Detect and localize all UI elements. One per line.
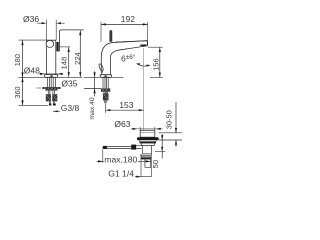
dim 153 extension left	[105, 104, 107, 113]
lever stick	[110, 31, 112, 42]
locknut ring (dark)	[140, 141, 157, 143]
svg-text:Ø48: Ø48	[24, 66, 40, 76]
svg-text:192: 192	[121, 14, 135, 24]
base plate	[45, 75, 58, 78]
cup rim line	[140, 132, 155, 134]
svg-text:Ø63: Ø63	[114, 119, 130, 129]
extension line 192 left	[100, 22, 102, 42]
dim line max.180	[96, 160, 150, 162]
thread section	[141, 154, 151, 160]
spout top edge detail	[116, 41, 148, 43]
lever hook on column	[98, 63, 104, 71]
thread dark band	[141, 157, 151, 159]
shank below deck	[47, 77, 55, 87]
deck bottom line	[84, 87, 101, 89]
leader G1 1/4	[135, 176, 152, 178]
flange (dark bar)	[137, 137, 159, 140]
shank (side)	[103, 77, 108, 88]
centerline aerator to drain	[143, 48, 145, 130]
lower white band	[141, 143, 154, 145]
lever ball	[46, 40, 54, 47]
extension line thread left	[140, 154, 142, 177]
dim line 153	[106, 109, 144, 111]
leader G3/8	[53, 110, 60, 112]
svg-text:156: 156	[152, 58, 161, 71]
dim line Ø63	[131, 128, 163, 130]
deck at drain top line	[159, 132, 182, 134]
arrow 360 bottom	[21, 100, 23, 105]
hose connector right (dark)	[52, 94, 57, 101]
rod tip (dark)	[103, 146, 107, 149]
angle arc with arrows	[137, 64, 151, 67]
svg-text:360: 360	[13, 86, 22, 98]
extension line right Ø36	[55, 20, 57, 40]
spout outline	[101, 41, 147, 77]
svg-text:180: 180	[13, 54, 22, 66]
base plate mark	[50, 76, 53, 77]
dim 156 vertical	[159, 47, 161, 77]
dim 224 vertical	[79, 30, 81, 77]
plug cup	[140, 130, 155, 137]
spout tip face	[146, 41, 148, 46]
extension line 156 top	[148, 46, 163, 48]
dim max.180 extension left	[102, 149, 104, 162]
svg-text:max.40: max.40	[89, 97, 96, 120]
deck line (side view)	[84, 76, 123, 78]
spout bottom step	[56, 50, 59, 52]
extension line 156 bottom	[150, 76, 163, 78]
aerator (dark)	[140, 44, 147, 46]
svg-text:30-50: 30-50	[164, 110, 173, 129]
step under flange	[139, 140, 156, 141]
svg-text:148: 148	[59, 57, 68, 70]
hose tails (side)	[104, 100, 106, 103]
extension line 192 right	[147, 22, 149, 40]
svg-text:153: 153	[119, 100, 133, 110]
hose connector left (dark)	[46, 94, 51, 101]
extension line left Ø36	[45, 20, 47, 40]
extension line bottom (hose end level)	[19, 104, 49, 106]
svg-text:Ø35: Ø35	[61, 79, 77, 89]
svg-text:Ø36: Ø36	[23, 14, 39, 24]
mounting nut (hatched)	[45, 87, 57, 91]
svg-text:G1 1/4: G1 1/4	[108, 169, 134, 179]
arrows at deck chain point	[21, 72, 23, 82]
dim line Ø36	[37, 22, 64, 24]
tailpipe upper	[142, 145, 151, 154]
dim max.40 vertical	[94, 71, 96, 96]
hose tails	[49, 101, 54, 103]
spout silhouette	[60, 30, 84, 51]
svg-text:G3/8: G3/8	[61, 103, 80, 113]
svg-text:max.180: max.180	[104, 154, 137, 164]
arrow 180 top	[21, 40, 23, 45]
svg-text:50: 50	[151, 160, 160, 168]
hose end cap left	[49, 104, 52, 106]
deck line (left view)	[19, 76, 83, 78]
dim line Ø35	[36, 87, 61, 89]
connector link	[136, 146, 141, 149]
nut (side, dark)	[101, 88, 110, 91]
hoses (side)	[104, 92, 107, 94]
dim line 192	[101, 23, 148, 25]
rod connector (dark)	[131, 145, 136, 150]
extension line 148 top (spout underside)	[60, 46, 71, 48]
faucet column body	[47, 40, 56, 74]
dim 30-50 vertical	[175, 102, 177, 147]
extension line thread right	[150, 159, 152, 177]
hose connectors (side, dark)	[103, 93, 109, 100]
pull rod	[103, 147, 131, 149]
extension line top (lever top level)	[19, 39, 48, 41]
tail stub	[145, 159, 151, 167]
dim 50 vertical	[161, 134, 163, 159]
base plate (side)	[100, 75, 111, 78]
base plate mark (side)	[104, 76, 107, 77]
extension ticks Ø63	[140, 127, 155, 130]
dim 148 vertical	[68, 47, 70, 77]
dim 180/360 vertical line	[22, 40, 24, 105]
dim line Ø48	[39, 73, 63, 75]
extension line 50 bottom	[155, 151, 165, 153]
lever stem (dark)	[57, 42, 59, 51]
hose end cap right	[53, 104, 56, 106]
hoses below nut	[48, 91, 54, 95]
svg-text:224: 224	[73, 52, 82, 65]
deck at drain bottom line	[159, 139, 182, 141]
